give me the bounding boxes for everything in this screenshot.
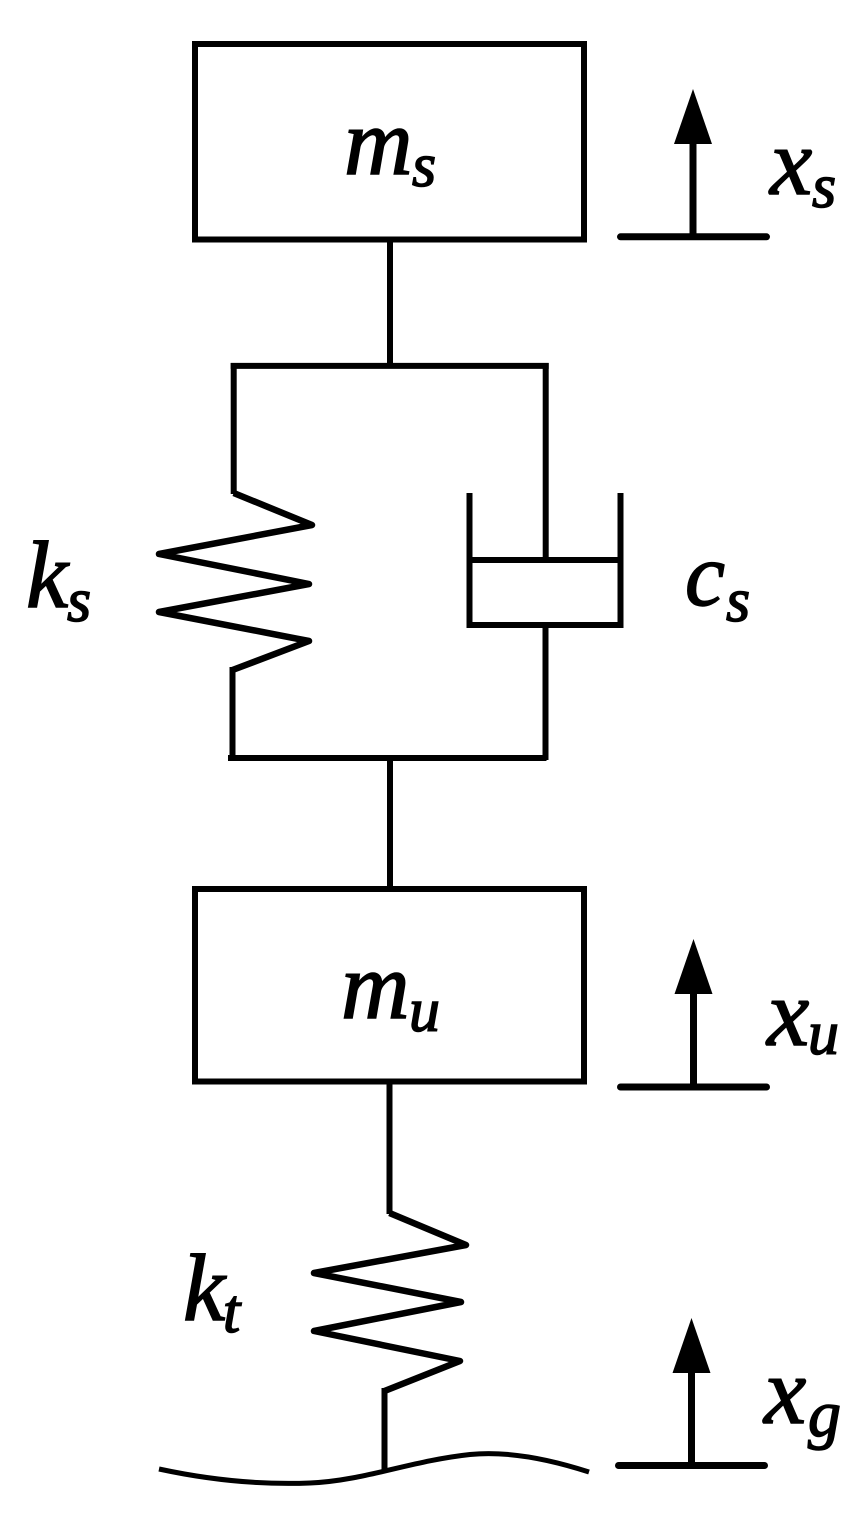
label k_s [26,522,91,635]
arrow x_u shaft [690,990,697,1087]
reference line for x_g [619,1462,765,1469]
damper c_s piston [467,557,624,563]
svg-text:t: t [223,1278,242,1346]
label c_s [685,526,750,635]
wire: spring k_s to bottom bar [230,667,236,760]
arrow x_u head [675,939,713,994]
label m_u [341,933,440,1045]
mass m_s (sprung mass block) [195,44,584,240]
reference line for x_u [621,1084,767,1091]
svg-text:c: c [685,526,725,625]
spring k_s [159,493,312,670]
svg-text:m: m [344,89,413,195]
svg-text:x: x [762,1338,806,1444]
arrow x_s shaft [690,140,697,237]
svg-text:x: x [768,109,812,215]
label m_s [344,89,436,200]
svg-text:k: k [183,1235,227,1341]
svg-text:g: g [808,1378,841,1451]
arrow x_g head [673,1318,711,1373]
wire: m_s bottom to top bar [387,240,393,366]
label x_g [762,1338,841,1451]
ground (road surface wave) [159,1454,589,1484]
svg-text:s: s [812,153,836,221]
svg-text:x: x [765,960,809,1066]
svg-text:s: s [726,567,750,635]
svg-text:s: s [412,132,436,200]
label x_s [768,109,836,221]
reference line for x_s [621,233,767,240]
wire: m_u bottom to spring k_t [387,1082,393,1214]
wire: left branch down to spring k_s [231,363,237,494]
wire: damper bottom to bottom bar [543,622,549,760]
arrow x_g shaft [688,1369,695,1466]
svg-text:u: u [409,977,440,1045]
wire: bottom bar of spring-damper assembly [228,755,547,761]
spring k_t [314,1213,466,1391]
mass m_u (unsprung mass block) [195,889,584,1082]
svg-text:u: u [808,1000,839,1068]
wire: top bar of spring-damper assembly [231,363,549,369]
wire: spring k_t to ground [382,1388,388,1472]
label x_u [765,960,839,1068]
wire: right branch down to damper rod [543,363,549,560]
svg-text:s: s [67,567,91,635]
arrow x_s head [674,89,712,144]
damper c_s cup [470,493,621,625]
svg-text:m: m [341,933,410,1039]
label k_t [183,1235,242,1346]
wire: bottom bar to m_u top [387,758,393,889]
svg-text:k: k [26,522,70,628]
